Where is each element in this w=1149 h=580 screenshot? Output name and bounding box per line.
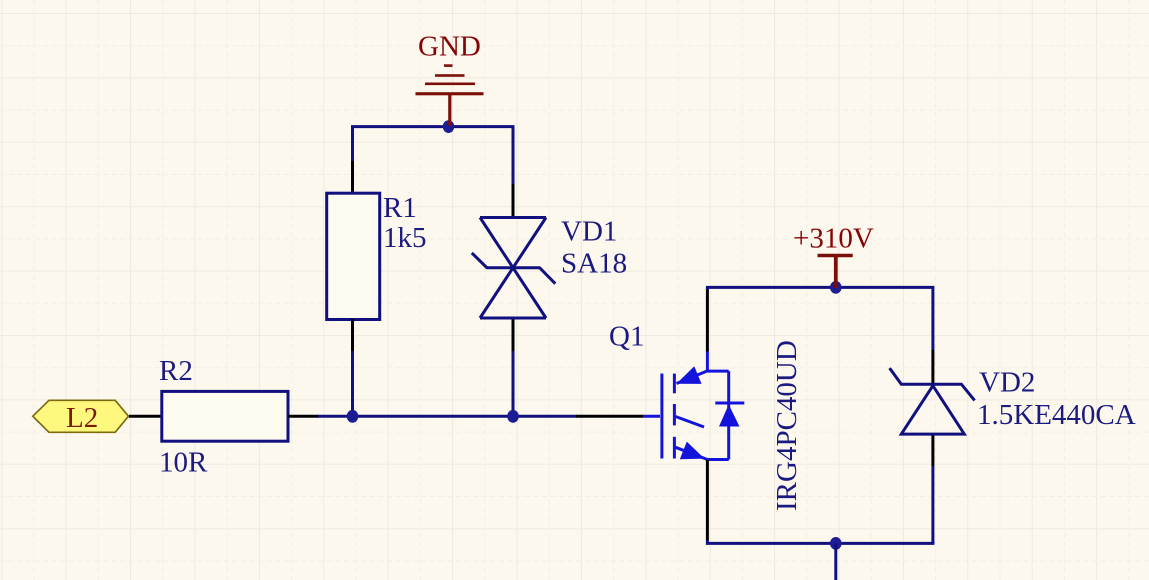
pin 1 VD2 bbox=[931, 350, 934, 384]
wire bottom rail bbox=[707, 540, 933, 543]
channel dashes bbox=[673, 374, 676, 394]
wire +310V rail bbox=[707, 287, 933, 351]
pin 2 VD2 bbox=[931, 436, 934, 467]
svg-text:1.5KE440CA: 1.5KE440CA bbox=[977, 399, 1136, 431]
gate bar bbox=[660, 374, 663, 459]
copack diode bbox=[727, 371, 730, 459]
body diagonal bbox=[676, 417, 705, 428]
power +310V bbox=[818, 256, 853, 289]
svg-text:VD2: VD2 bbox=[979, 367, 1035, 399]
diode VD1 bbox=[472, 184, 556, 353]
node junction R1-bus bbox=[347, 410, 359, 423]
pin L2 to R2 bbox=[129, 415, 163, 418]
collector branch bbox=[706, 351, 709, 371]
wire VD1 to bus bbox=[512, 351, 515, 416]
svg-text:Q1: Q1 bbox=[609, 321, 644, 353]
pin 2 VD1 bbox=[512, 320, 515, 353]
port L2 bbox=[33, 400, 129, 434]
svg-text:R1: R1 bbox=[383, 192, 417, 224]
node junction GND-top bbox=[443, 120, 455, 133]
node junction VD1-bus bbox=[507, 410, 519, 423]
svg-text:VD1: VD1 bbox=[561, 216, 617, 248]
resistor R2 bbox=[162, 391, 319, 441]
svg-text:10R: 10R bbox=[159, 447, 208, 479]
transistor Q1 bbox=[643, 351, 744, 460]
emitter branch bbox=[676, 447, 708, 459]
pin 1 R1 bbox=[351, 161, 354, 194]
wire R1 to bus bbox=[351, 351, 354, 416]
pin 2 R2 bbox=[288, 415, 319, 418]
resistor R1 bbox=[327, 161, 380, 353]
svg-text:SA18: SA18 bbox=[561, 248, 627, 280]
diode VD2 bbox=[890, 350, 975, 466]
svg-text:L2: L2 bbox=[66, 402, 98, 434]
svg-text:1k5: 1k5 bbox=[383, 222, 427, 254]
pin collector Q1 bbox=[706, 289, 709, 352]
pin 2 R1 bbox=[351, 319, 354, 353]
gate lead bbox=[643, 415, 660, 418]
node junction bottom bbox=[830, 537, 842, 550]
wire top loop bbox=[353, 127, 514, 186]
wire VD2 to bottom bbox=[931, 466, 934, 543]
svg-text:R2: R2 bbox=[159, 355, 193, 387]
svg-text:IRG4PC40UD: IRG4PC40UD bbox=[771, 340, 803, 511]
pin 1 VD1 bbox=[512, 184, 515, 218]
wire bus to gate bbox=[318, 415, 577, 418]
node junction rail-power bbox=[830, 281, 842, 294]
svg-text:+310V: +310V bbox=[793, 223, 874, 255]
ground bbox=[416, 64, 484, 126]
svg-text:GND: GND bbox=[418, 31, 481, 63]
pin gate Q1 bbox=[576, 415, 643, 418]
pin emitter Q1 bbox=[706, 460, 709, 541]
wire bottom stub bbox=[834, 543, 837, 580]
